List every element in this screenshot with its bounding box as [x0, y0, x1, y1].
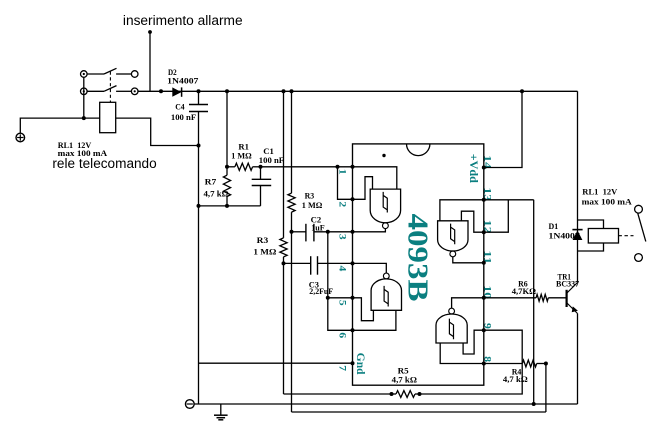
svg-text:BC337: BC337	[556, 279, 580, 289]
svg-text:+Vdd: +Vdd	[467, 154, 481, 183]
svg-text:2: 2	[336, 201, 347, 207]
pin number 14	[482, 155, 493, 169]
wire pin14 Vdd	[484, 91, 522, 167]
svg-text:inserimento allarme: inserimento allarme	[123, 13, 243, 29]
junction dot R5 right	[418, 392, 422, 396]
svg-text:Gnd: Gnd	[354, 353, 368, 375]
svg-text:1 MΩ: 1 MΩ	[231, 151, 251, 161]
wire collector up	[577, 251, 579, 283]
junction dot pin 12	[482, 230, 486, 234]
junction dot on main wire at rail 283	[282, 89, 286, 93]
wire pin5 stub	[328, 297, 353, 299]
wire gate1 output to pin3	[353, 228, 386, 232]
pin number 8	[482, 356, 493, 362]
svg-text:1: 1	[336, 169, 347, 175]
junction dot C3 left	[282, 261, 286, 265]
wire rail 283 lower	[283, 257, 285, 394]
junction dot pin 4	[351, 261, 355, 265]
terminal plus	[16, 133, 25, 142]
pin number 1	[336, 169, 347, 175]
svg-text:D1: D1	[549, 221, 559, 231]
svg-text:6: 6	[336, 332, 347, 338]
svg-text:4093B: 4093B	[402, 214, 433, 302]
junction dot pin 9	[482, 328, 486, 332]
label 100 nF for C1	[259, 155, 284, 165]
svg-text:R3: R3	[305, 191, 315, 201]
svg-text:rele telecomando: rele telecomando	[52, 156, 156, 171]
label 4,7Kohm for R6	[512, 286, 536, 296]
pin number 11	[482, 250, 493, 264]
wire pin7 to rail	[199, 362, 353, 364]
contact switch top right	[635, 205, 643, 213]
wire pin9 step into gate4	[463, 330, 484, 354]
svg-text:C4: C4	[175, 101, 185, 111]
wire bottom line3	[292, 411, 546, 413]
wire R7 bottom line	[199, 205, 261, 207]
label R6	[518, 279, 528, 289]
wire R1 rail from main	[226, 91, 228, 167]
wire inserimento vertical	[149, 32, 151, 91]
wire gate4 output to pin10	[452, 298, 484, 309]
nand gate U1A	[370, 189, 400, 229]
wire tie pin3 pin5 pin6	[328, 232, 353, 330]
label R5	[398, 366, 410, 376]
capacitor C2	[292, 224, 353, 242]
IC pin1 marker dot	[382, 154, 385, 157]
nand gate U1C	[438, 221, 468, 257]
capacitor C4	[189, 91, 208, 145]
pin number 9	[482, 323, 493, 329]
terminal minus	[185, 400, 194, 409]
label C1	[263, 146, 274, 156]
label 1N4007 for D2	[167, 75, 199, 85]
node inserimento allarme / junction dot	[148, 30, 152, 34]
wire R4 right	[537, 363, 546, 365]
svg-text:R7: R7	[205, 177, 217, 187]
label 4,7 kohm for R7	[204, 189, 229, 199]
dashed relay actuator link left	[109, 72, 111, 103]
wire lower contact right	[116, 90, 131, 92]
wire Vdd rail right corner	[577, 91, 579, 220]
label R3 second	[257, 235, 269, 245]
junction dot pin 11	[482, 261, 486, 265]
label RL1 12V left	[58, 140, 92, 150]
switch blade upper	[104, 68, 117, 74]
dashed relay actuator link right	[619, 235, 634, 237]
wire R4 down to bottom line	[545, 364, 547, 413]
svg-text:5: 5	[336, 300, 347, 306]
pin number 6	[336, 332, 347, 338]
wire emitter down	[577, 314, 579, 405]
junction dot on main wire x161	[159, 89, 163, 93]
pin number 12	[482, 220, 493, 234]
wire rail 291 upper	[291, 91, 293, 193]
diode D1	[572, 230, 582, 240]
capacitor C3	[284, 256, 353, 275]
nand gate U1D	[436, 308, 467, 343]
resistor R4	[522, 360, 536, 367]
resistor R3 second	[280, 238, 287, 257]
label Gnd	[354, 353, 368, 375]
label TR1	[558, 271, 572, 281]
pin number 4	[336, 266, 347, 272]
label RL1 12V right	[582, 186, 618, 196]
nand gate U1B	[371, 273, 401, 310]
pin number 5	[336, 300, 347, 306]
junction dot left rail	[82, 116, 86, 120]
junction dot pin 13	[482, 198, 486, 202]
pin number 2	[336, 201, 347, 207]
wire upper contact	[87, 73, 104, 75]
ground symbol	[214, 404, 228, 420]
label 1N4007 for D1	[549, 231, 581, 241]
wire tie pin1 to pin2	[338, 167, 353, 200]
wire R5 to pin9	[420, 330, 523, 394]
resistor R3 first	[288, 193, 295, 212]
svg-text:4: 4	[336, 266, 347, 272]
wire plus terminal to coil	[20, 118, 99, 133]
junction dot tie pin1	[336, 165, 340, 169]
switch blade right	[638, 213, 646, 241]
wire pin8 to R4	[484, 363, 523, 365]
wire pin1 row to IC	[261, 166, 338, 168]
junction dot pin 3	[351, 230, 355, 234]
label D1	[549, 221, 559, 231]
wire ground line	[194, 403, 577, 405]
junction dot R5 left	[390, 392, 394, 396]
label 1 Mohm for R3 first	[302, 200, 323, 210]
diode D2	[172, 87, 181, 96]
contact upper left terminal	[81, 71, 88, 78]
label BC337	[556, 279, 580, 289]
wire pin10 to R6	[484, 297, 536, 299]
wire main top horizontal	[138, 90, 578, 92]
wire pin13 into gate3	[440, 200, 484, 221]
svg-text:3: 3	[336, 234, 347, 240]
resistor R7	[223, 167, 230, 206]
wire pin8 into gate4	[440, 343, 484, 364]
label R4	[512, 367, 522, 377]
junction dot tie pin3	[326, 230, 330, 234]
svg-text:1 MΩ: 1 MΩ	[302, 200, 323, 210]
junction dot pin 10	[482, 296, 486, 300]
junction dot R1 left	[225, 165, 229, 169]
junction dot pin 5	[351, 296, 355, 300]
IC U1 4093B body	[353, 144, 484, 385]
label max 100 mA right	[582, 197, 633, 207]
junction dot on main wire at R1 rail	[225, 89, 229, 93]
label 1uF for C2	[311, 222, 325, 232]
junction dot pin 1	[351, 165, 355, 169]
label C2	[311, 215, 322, 225]
wire rail C4 down	[198, 146, 200, 405]
resistor R1	[235, 163, 253, 170]
wire rail 283 upper	[283, 91, 285, 238]
relay RL1 coil box	[100, 102, 116, 132]
wire lower contact	[87, 90, 104, 92]
junction dot pin 6	[351, 328, 355, 332]
label 100 nF for C4	[171, 112, 196, 122]
label R1	[238, 142, 249, 152]
junction dot on main wire at rail 291	[290, 89, 294, 93]
svg-text:max 100 mA: max 100 mA	[582, 197, 633, 207]
wire rail relay segment	[577, 220, 579, 251]
wire tie rail down	[533, 200, 535, 404]
wire R6 to base	[548, 297, 566, 299]
svg-text:1N4007: 1N4007	[167, 75, 199, 85]
wire pin13-pin12 loop	[484, 200, 509, 232]
wire pin1 into IC	[338, 167, 397, 189]
switch blade lower	[104, 86, 117, 92]
wire pin6 into gate2	[353, 310, 396, 330]
svg-text:RL1 12V: RL1 12V	[582, 186, 618, 196]
contact switch bottom right	[635, 254, 643, 262]
label C4	[175, 101, 185, 111]
wire pin2 step into gate1	[353, 177, 373, 200]
pin number 10	[482, 285, 493, 299]
resistor R5	[392, 391, 420, 398]
wire pin12 step into gate3	[461, 211, 483, 232]
junction dot R4 right	[544, 362, 548, 366]
svg-text:4,7KΩ: 4,7KΩ	[512, 286, 536, 296]
contact lower left terminal	[81, 88, 88, 95]
relay RL1 right coil box	[588, 229, 618, 244]
pin number 7	[336, 365, 347, 371]
label R3 first	[305, 191, 315, 201]
contact lower right terminal	[131, 88, 138, 95]
wire coil right to C4 bottom	[116, 118, 199, 145]
label 1 Mohm for R3 second	[253, 246, 276, 256]
junction dot tie rail at ground line	[532, 402, 536, 406]
wire gate3 output to pin11	[453, 257, 484, 263]
wire left contacts vertical	[83, 77, 85, 118]
junction dot tie pin5	[326, 296, 330, 300]
junction dot on main wire at C4	[197, 89, 201, 93]
label rele telecomando	[52, 156, 156, 171]
label D2	[168, 67, 177, 77]
label max 100 mA left	[58, 148, 108, 158]
svg-text:4,7 kΩ: 4,7 kΩ	[503, 374, 528, 384]
label C3	[309, 279, 320, 289]
label 4,7 kohm for R5	[392, 375, 417, 385]
svg-text:100 nF: 100 nF	[259, 155, 284, 165]
svg-text:4,7 kΩ: 4,7 kΩ	[204, 189, 229, 199]
junction dot C2 left	[290, 230, 294, 234]
junction dot R7 bottom	[225, 204, 229, 208]
label 4093B	[402, 214, 433, 302]
svg-text:7: 7	[336, 365, 347, 371]
svg-text:1uF: 1uF	[311, 222, 325, 232]
wire relay bottom stub	[578, 243, 604, 251]
capacitor C1	[252, 167, 272, 206]
label inserimento allarme	[123, 13, 243, 29]
wire R1 to C1	[253, 166, 261, 168]
junction dot pin 14	[482, 166, 486, 170]
label 1 Mohm for R1	[231, 151, 251, 161]
wire gate2 output to pin4	[353, 263, 387, 273]
svg-text:2,2FuF: 2,2FuF	[309, 286, 333, 296]
label 4,7 kohm for R4	[503, 374, 528, 384]
svg-text:1N4007: 1N4007	[549, 231, 581, 241]
label R7	[205, 177, 217, 187]
label +Vdd	[467, 154, 481, 183]
junction dot on main wire at Vdd branch	[520, 89, 524, 93]
svg-text:1 MΩ: 1 MΩ	[253, 246, 276, 256]
transistor TR1	[567, 283, 578, 314]
resistor R6	[536, 294, 548, 301]
wire upper contact right	[116, 73, 131, 75]
pin number 13	[482, 187, 493, 201]
pin number 3	[336, 234, 347, 240]
svg-text:8: 8	[482, 356, 493, 362]
junction dot pin 2	[351, 197, 355, 201]
wire rail 291 lower	[291, 212, 293, 412]
svg-text:100 nF: 100 nF	[171, 112, 196, 122]
wire R5 line left	[284, 393, 392, 395]
label 2,2FuF for C3	[309, 286, 333, 296]
junction dot R1 right	[259, 165, 263, 169]
wire R1 stub left	[227, 166, 235, 168]
wire pin5 step into gate2	[353, 298, 374, 321]
wire relay top stub	[578, 220, 604, 229]
junction dot pin 7	[351, 361, 355, 365]
junction dot pin 8	[482, 362, 486, 366]
svg-text:R3: R3	[257, 235, 269, 245]
wire pin13 tie	[484, 199, 534, 201]
junction dot rail198 at R7 line	[197, 204, 201, 208]
svg-text:9: 9	[482, 323, 493, 329]
svg-text:4,7 kΩ: 4,7 kΩ	[392, 375, 417, 385]
contact upper right terminal	[131, 71, 138, 78]
junction dot C4 bottom	[197, 144, 201, 148]
